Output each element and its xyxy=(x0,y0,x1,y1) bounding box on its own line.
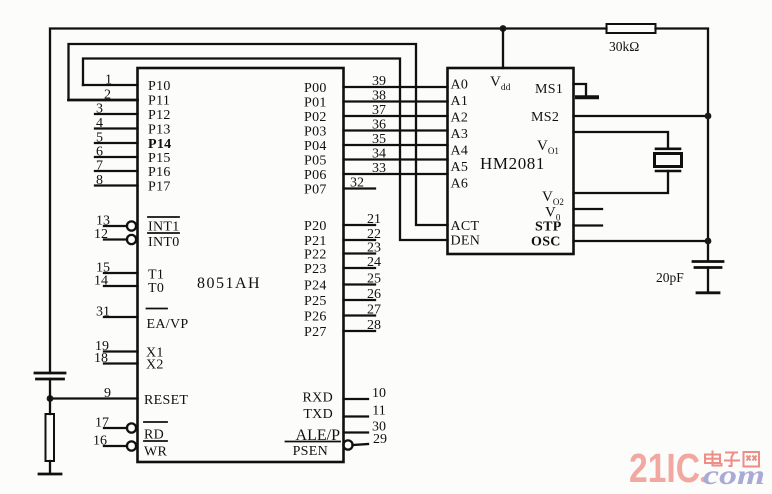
svg-text:36: 36 xyxy=(372,118,386,133)
wire P10 loop to DEN xyxy=(83,59,448,241)
logo 电 glyph xyxy=(705,451,722,466)
underline ALE/P xyxy=(286,441,341,443)
svg-text:A0: A0 xyxy=(451,78,469,93)
wire MS1 stub xyxy=(574,84,587,96)
wire V01 to crystal xyxy=(574,132,669,149)
svg-text:P17: P17 xyxy=(148,180,171,195)
svg-text:11: 11 xyxy=(372,404,385,419)
svg-text:DEN: DEN xyxy=(451,234,481,249)
svg-text:P15: P15 xyxy=(148,151,171,166)
svg-text:26: 26 xyxy=(367,287,381,302)
wire pin36 to A3 xyxy=(344,129,448,131)
svg-text:P00: P00 xyxy=(304,81,327,96)
overline RD xyxy=(144,421,167,423)
svg-text:P04: P04 xyxy=(304,139,327,154)
svg-text:A2: A2 xyxy=(451,111,469,126)
svg-text:21IC: 21IC xyxy=(629,445,700,491)
svg-text:P03: P03 xyxy=(304,125,327,140)
wire pin39 to A0 xyxy=(344,86,448,88)
wire pin4 P13 xyxy=(95,127,138,129)
wire pin25 stub xyxy=(344,283,376,285)
node Vdd junction xyxy=(500,25,507,32)
svg-text:31: 31 xyxy=(96,305,110,320)
svg-text:P05: P05 xyxy=(304,154,327,169)
wire pin13 INT1 xyxy=(104,225,127,227)
svg-text:24: 24 xyxy=(367,255,381,270)
wire pin6 P15 xyxy=(95,156,138,158)
node MS2 junction xyxy=(705,113,712,120)
wire pin28 stub xyxy=(344,330,376,332)
wire C1 to reset node xyxy=(49,379,51,414)
wire pin5 P14 xyxy=(95,142,138,144)
svg-text:32: 32 xyxy=(350,176,364,191)
svg-text:A6: A6 xyxy=(451,177,469,192)
pin13 inverter bubble xyxy=(127,221,136,230)
wire pin16 WR xyxy=(104,445,127,447)
svg-text:16: 16 xyxy=(93,434,107,449)
svg-text:P27: P27 xyxy=(304,325,327,340)
wire pin21 stub xyxy=(344,224,376,226)
svg-text:P20: P20 xyxy=(304,219,327,234)
svg-text:6: 6 xyxy=(96,145,103,160)
svg-text:30kΩ: 30kΩ xyxy=(609,39,639,54)
svg-text:RD: RD xyxy=(144,428,164,443)
pin29 inverter bubble xyxy=(343,440,352,449)
overline WR xyxy=(144,440,167,442)
svg-text:28: 28 xyxy=(367,318,381,333)
wire pin18 X2 xyxy=(104,362,138,364)
svg-text:33: 33 xyxy=(372,161,386,176)
svg-text:18: 18 xyxy=(94,351,108,366)
svg-text:Vdd: Vdd xyxy=(490,74,511,93)
svg-text:INT0: INT0 xyxy=(148,235,180,250)
wire pin34 to A5 xyxy=(344,158,448,160)
wire pin9 RESET xyxy=(50,397,138,399)
wire pin2 P11 xyxy=(69,99,138,102)
logo dot xyxy=(701,477,707,483)
svg-text:P23: P23 xyxy=(304,262,327,277)
svg-text:ACT: ACT xyxy=(451,219,480,234)
svg-text:RESET: RESET xyxy=(144,393,188,408)
svg-text:1: 1 xyxy=(105,73,112,88)
capacitor C1 reset top plate xyxy=(35,372,65,375)
svg-text:P01: P01 xyxy=(304,96,327,111)
wire OSC net xyxy=(574,240,709,242)
svg-text:P11: P11 xyxy=(148,94,170,109)
overline EA xyxy=(147,308,168,310)
svg-text:P16: P16 xyxy=(148,165,171,180)
wire pin15 T1 xyxy=(104,272,138,274)
svg-text:PSEN: PSEN xyxy=(293,444,328,459)
svg-text:8051AH: 8051AH xyxy=(197,275,261,292)
svg-text:37: 37 xyxy=(372,103,386,118)
svg-text:HM2081: HM2081 xyxy=(480,154,545,173)
overline INT1 xyxy=(148,216,179,218)
svg-text:X2: X2 xyxy=(146,358,164,373)
resistor R2 reset body xyxy=(46,414,55,461)
svg-text:17: 17 xyxy=(95,416,109,431)
svg-text:P22: P22 xyxy=(304,248,327,263)
wire pin38 to A1 xyxy=(344,100,448,102)
resistor R1 30k body xyxy=(607,24,656,33)
svg-text:34: 34 xyxy=(372,147,386,162)
svg-text:P10: P10 xyxy=(148,79,171,94)
capacitor C2 20pF bottom plate xyxy=(695,266,721,269)
svg-text:25: 25 xyxy=(367,272,381,287)
svg-text:MS1: MS1 xyxy=(535,82,563,97)
svg-text:9: 9 xyxy=(104,386,111,401)
pin17 inverter bubble xyxy=(127,423,136,432)
svg-text:2: 2 xyxy=(104,88,111,103)
overline INT0 xyxy=(148,232,179,234)
wire pin17 RD xyxy=(104,427,127,429)
pin16 inverter bubble xyxy=(127,441,136,450)
svg-text:P06: P06 xyxy=(304,168,327,183)
svg-text:INT1: INT1 xyxy=(148,220,180,235)
wire pin1 P10 xyxy=(83,84,138,86)
wire pin12 INT0 xyxy=(104,238,127,240)
svg-text:T0: T0 xyxy=(148,281,164,296)
wire pin7 P16 xyxy=(95,170,138,172)
wire C2 lower lead xyxy=(707,268,709,293)
svg-text:4: 4 xyxy=(96,116,103,131)
pin12 inverter bubble xyxy=(127,235,136,244)
wire pin35 to A4 xyxy=(344,144,448,146)
wire MS2 net xyxy=(574,115,709,117)
wire pin27 stub xyxy=(344,314,376,316)
svg-text:ALE/P: ALE/P xyxy=(296,427,341,444)
svg-text:P12: P12 xyxy=(148,108,171,123)
svg-text:5: 5 xyxy=(96,131,103,146)
wire pin23 stub xyxy=(344,252,376,254)
wire pin10 RXD stub xyxy=(344,398,369,400)
wire pin11 TXD stub xyxy=(344,415,369,417)
wire pin26 stub xyxy=(344,299,376,301)
wire pin19 X1 xyxy=(104,350,138,352)
wire pin31 EA/VP xyxy=(104,316,138,318)
crystal Y1 body xyxy=(655,154,682,167)
ground at MS1 xyxy=(577,95,597,99)
svg-text:P07: P07 xyxy=(304,183,327,198)
wire P11 loop to ACT xyxy=(69,44,448,225)
wire pin29 PSEN stub xyxy=(353,444,369,445)
svg-text:29: 29 xyxy=(373,432,387,447)
svg-text:OSC: OSC xyxy=(531,235,561,250)
svg-text:14: 14 xyxy=(94,274,108,289)
capacitor C2 20pF top plate xyxy=(693,260,723,263)
wire pin3 P12 xyxy=(95,113,138,115)
svg-text:39: 39 xyxy=(372,74,386,89)
op-amp U1 body: 8051AH IC outline xyxy=(138,68,344,462)
logo 网 glyph xyxy=(744,452,760,467)
svg-text:3: 3 xyxy=(96,102,103,117)
svg-text:TXD: TXD xyxy=(303,407,333,422)
svg-text:A1: A1 xyxy=(451,94,469,109)
svg-text:23: 23 xyxy=(367,241,381,256)
wire pin14 T0 xyxy=(104,285,138,287)
wire pin30 ALE stub xyxy=(344,431,369,433)
wire pin37 to A2 xyxy=(344,115,448,117)
crystal Y1 top plate xyxy=(656,148,680,151)
logo 子 glyph xyxy=(724,453,740,467)
crystal Y1 bottom plate xyxy=(656,170,680,173)
svg-text:EA/VP: EA/VP xyxy=(147,317,189,332)
wire crystal to V02 xyxy=(574,171,669,193)
wire pin33 to A6 xyxy=(344,173,448,175)
wire Vdd drop to HM2081 xyxy=(502,29,504,69)
ground at R2 xyxy=(39,473,61,476)
svg-text:35: 35 xyxy=(372,132,386,147)
wire pin8 P17 xyxy=(95,184,138,186)
wire V0 stub xyxy=(574,208,603,210)
node reset junction xyxy=(47,395,54,402)
svg-text:12: 12 xyxy=(94,227,108,242)
wire Vcc top rail right segment xyxy=(656,29,709,262)
svg-text:P25: P25 xyxy=(304,294,327,309)
svg-text:A5: A5 xyxy=(451,160,469,175)
wire Vcc top rail left segment xyxy=(50,29,607,374)
svg-text:10: 10 xyxy=(372,386,386,401)
svg-text:21: 21 xyxy=(367,212,381,227)
svg-text:P02: P02 xyxy=(304,110,327,125)
node OSC junction xyxy=(705,238,712,245)
svg-text:P14: P14 xyxy=(148,137,171,152)
svg-text:WR: WR xyxy=(144,445,168,460)
svg-text:STP: STP xyxy=(535,220,562,235)
capacitor C1 reset bottom plate xyxy=(37,378,64,381)
svg-text:MS2: MS2 xyxy=(531,110,559,125)
svg-text:38: 38 xyxy=(372,89,386,104)
svg-text:com: com xyxy=(703,460,765,490)
wire pin22 stub xyxy=(344,239,376,241)
svg-text:A4: A4 xyxy=(451,144,469,159)
op-amp U2 body: HM2081 IC outline xyxy=(448,68,574,254)
wire pin24 stub xyxy=(344,267,376,269)
svg-text:A3: A3 xyxy=(451,127,469,142)
ground at C2 xyxy=(697,291,719,294)
svg-text:P26: P26 xyxy=(304,310,327,325)
svg-text:27: 27 xyxy=(367,303,381,318)
wire pin32 stub xyxy=(344,187,376,189)
svg-text:7: 7 xyxy=(96,159,103,174)
svg-text:P24: P24 xyxy=(304,279,327,294)
svg-text:P13: P13 xyxy=(148,123,171,138)
svg-text:8: 8 xyxy=(96,173,103,188)
svg-text:RXD: RXD xyxy=(303,391,333,406)
wire R2 lower lead xyxy=(49,461,51,474)
svg-text:20pF: 20pF xyxy=(656,270,684,285)
wire STP stub xyxy=(574,224,603,226)
